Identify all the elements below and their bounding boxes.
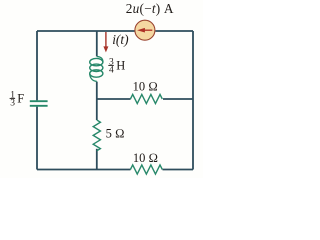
svg-text:10 Ω: 10 Ω bbox=[133, 79, 158, 93]
svg-text:5 Ω: 5 Ω bbox=[106, 127, 125, 141]
svg-text:2u(−t) A: 2u(−t) A bbox=[126, 1, 174, 16]
svg-text:i(t): i(t) bbox=[112, 32, 129, 47]
svg-text:10 Ω: 10 Ω bbox=[133, 151, 158, 165]
svg-text:3: 3 bbox=[10, 99, 15, 109]
svg-text:H: H bbox=[116, 58, 125, 72]
svg-text:F: F bbox=[17, 91, 24, 105]
svg-text:4: 4 bbox=[109, 66, 114, 76]
